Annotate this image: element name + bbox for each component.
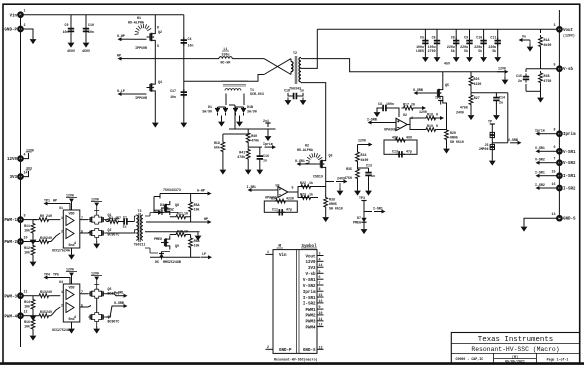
svg-text:PWM2: PWM2	[305, 315, 316, 319]
svg-text:C16: C16	[263, 154, 269, 158]
gate drive transformer T3	[134, 209, 146, 247]
svg-text:450V: 450V	[82, 49, 90, 53]
symbol pin V-sb (5)	[305, 269, 323, 277]
ground (J5)	[489, 158, 496, 166]
svg-text:4220: 4220	[286, 197, 294, 201]
wire T2 aux to aux rail	[301, 59, 504, 72]
connector pin 12V0 (4)	[7, 149, 34, 163]
symbol pin GND-P (2)	[265, 345, 292, 353]
svg-text:R27: R27	[474, 96, 480, 100]
symbol pin Vin (1)	[265, 250, 287, 258]
svg-text:PWM-1: PWM-1	[4, 219, 17, 223]
wire C15/R1B bottom	[526, 90, 541, 92]
wire resonant capacitor leg	[183, 15, 185, 120]
svg-text:H2: H2	[305, 144, 309, 148]
svg-text:V-SR2: V-SR2	[563, 162, 576, 166]
svg-text:2x1: 2x1	[263, 119, 269, 123]
svg-text:Q8: Q8	[175, 203, 179, 207]
svg-text:TP5: TP5	[53, 273, 59, 277]
resistor R26 4220	[469, 72, 481, 93]
transistor pair Q7b BC807	[88, 313, 119, 334]
ground (R1B)	[537, 95, 544, 103]
svg-text:MMBT: MMBT	[154, 209, 162, 213]
connector pin Vout (3)	[554, 23, 575, 38]
svg-text:I-SR2: I-SR2	[563, 188, 576, 192]
svg-text:C0000 - CAP,IC: C0000 - CAP,IC	[456, 357, 484, 361]
wire crossover X to T2 primary	[264, 59, 291, 75]
svg-text:R22: R22	[300, 181, 306, 185]
transistor pair Q1 BC817	[88, 213, 119, 224]
svg-text:C15: C15	[516, 74, 522, 78]
svg-text:C11: C11	[490, 36, 496, 40]
resistor R14 10k	[24, 296, 35, 313]
svg-text:R5A: R5A	[194, 203, 200, 207]
capacitor C10b	[474, 29, 487, 62]
svg-text:Vin: Vin	[9, 13, 17, 18]
svg-text:2n: 2n	[518, 79, 522, 83]
svg-text:I-SRL: I-SRL	[247, 185, 257, 189]
svg-text:Vin: Vin	[279, 253, 287, 258]
svg-text:PWM1: PWM1	[305, 309, 316, 313]
hierarchical symbol M outline	[273, 244, 317, 353]
dual diode D1B	[233, 94, 257, 120]
net arrow 12V0 (U4 VDD)	[66, 268, 77, 285]
svg-text:[M]: [M]	[512, 355, 518, 359]
resistor R5B 10k (LP)	[189, 235, 200, 258]
svg-text:3A/90: 3A/90	[202, 110, 212, 114]
test point TP1 HP	[44, 199, 71, 211]
test point TP4	[44, 273, 71, 285]
left hierarchical pin rail	[20, 15, 22, 347]
ground (C8b)	[374, 110, 381, 118]
op-amp U2	[384, 113, 413, 132]
svg-text:R18: R18	[214, 141, 220, 145]
transistor pair Q6b BC817	[88, 287, 119, 298]
heatsink H1	[128, 16, 151, 35]
transistor Q6 (SR FET)	[313, 154, 332, 179]
svg-text:R5B: R5B	[194, 239, 200, 243]
ground (D7)	[361, 227, 368, 235]
svg-text:I-SR1: I-SR1	[373, 207, 383, 211]
ground (R16)	[30, 333, 37, 341]
svg-text:5k: 5k	[464, 49, 468, 53]
svg-text:1n: 1n	[300, 89, 304, 93]
svg-text:G-SRL: G-SRL	[114, 291, 124, 295]
svg-text:5: 5	[292, 186, 294, 190]
wire sense node	[223, 105, 276, 140]
capacitor C15 2n	[516, 69, 529, 92]
svg-text:12V0: 12V0	[7, 158, 18, 162]
svg-text:GND-S: GND-S	[303, 349, 316, 353]
ground (R20)	[443, 146, 450, 154]
svg-text:56k: 56k	[214, 146, 220, 150]
symbol pin GND-S (13)	[303, 345, 324, 353]
svg-text:U2: U2	[403, 113, 407, 117]
svg-text:GND-P: GND-P	[4, 29, 17, 33]
svg-text:R20: R20	[450, 131, 456, 135]
svg-text:PWM-4: PWM-4	[4, 315, 17, 319]
svg-text:Vo: Vo	[522, 35, 526, 39]
svg-text:I-SR1: I-SR1	[563, 175, 576, 179]
resistor R3 4R7	[105, 216, 121, 223]
svg-text:VDD: VDD	[69, 212, 75, 216]
svg-text:C14: C14	[499, 96, 505, 100]
resistor R5A 10k	[189, 194, 200, 223]
svg-text:4750: 4750	[344, 176, 352, 180]
capacitor C9 450V	[63, 15, 75, 53]
svg-text:D5: D5	[155, 260, 159, 264]
connector pin V-SR1 (6)	[535, 145, 576, 155]
svg-text:4750: 4750	[544, 79, 552, 83]
svg-text:R1B: R1B	[544, 74, 550, 78]
svg-text:SH 0510: SH 0510	[329, 207, 343, 211]
svg-text:5k: 5k	[451, 49, 455, 53]
ground (D1B)	[236, 119, 243, 127]
current transformer T1	[221, 81, 264, 96]
svg-text:Q2: Q2	[158, 30, 162, 34]
capacitor C16 1n	[257, 147, 269, 167]
svg-text:Vout: Vout	[563, 29, 574, 33]
wire T2 bottom to SR leg	[301, 83, 326, 157]
heatsink H2	[297, 144, 322, 164]
test point TP3	[359, 196, 367, 216]
svg-text:10k: 10k	[194, 208, 200, 212]
svg-text:499: 499	[392, 136, 398, 140]
svg-text:11: 11	[319, 317, 323, 321]
svg-text:OPA365: OPA365	[384, 128, 396, 132]
wire Q2 source to switch node	[154, 44, 156, 81]
svg-text:499: 499	[406, 136, 412, 140]
title cell revision	[505, 355, 525, 364]
svg-text:16: 16	[319, 299, 323, 303]
svg-text:1: 1	[267, 250, 269, 254]
net arrow G-SR1 to Q6 gate	[295, 159, 317, 166]
svg-text:8: 8	[554, 128, 556, 132]
svg-text:C13: C13	[392, 150, 398, 154]
net arrow I-SRL to U3 input	[247, 185, 278, 192]
svg-text:U1: U1	[59, 206, 63, 210]
svg-text:1: 1	[61, 216, 63, 220]
svg-text:R11: R11	[24, 224, 30, 228]
capacitor C10 450V	[82, 15, 94, 53]
net arrow V-SRB	[492, 138, 521, 145]
svg-text:3V3: 3V3	[9, 176, 17, 180]
svg-text:V-SRB: V-SRB	[508, 138, 518, 142]
transformer T2	[289, 51, 301, 91]
svg-text:12V0: 12V0	[498, 67, 506, 71]
resistor R35 4750	[344, 167, 359, 188]
svg-text:R34: R34	[271, 197, 277, 201]
svg-text:R19: R19	[427, 124, 433, 128]
svg-text:8: 8	[319, 287, 321, 291]
svg-text:MMSZ5248B: MMSZ5248B	[163, 260, 181, 264]
net arrow 12V0 (R34 top)	[358, 139, 373, 147]
svg-text:Q5: Q5	[445, 83, 449, 87]
capacitor C4	[181, 37, 194, 48]
svg-text:G-SRB: G-SRB	[114, 301, 124, 305]
net arrow G-SRL	[97, 291, 128, 313]
svg-text:12V0: 12V0	[358, 139, 366, 143]
test point 2x1 jumper	[263, 119, 271, 141]
capacitor C18 1n (Y-cap)	[284, 89, 304, 100]
resistor R20 0R05 shunt	[445, 128, 464, 146]
capacitor C17	[170, 89, 187, 99]
resistor R17 20	[402, 102, 419, 110]
capacitor C14 2u	[493, 93, 505, 113]
svg-text:HP: HP	[117, 54, 121, 58]
svg-text:1: 1	[61, 290, 63, 294]
symbol pin Iprim (8)	[303, 287, 324, 295]
svg-text:PMEG: PMEG	[353, 221, 361, 225]
svg-text:10: 10	[319, 311, 323, 315]
svg-text:4: 4	[74, 315, 76, 319]
symbol pin 12V0 (4)	[305, 257, 323, 265]
svg-text:14: 14	[24, 171, 28, 175]
svg-text:HP: HP	[204, 217, 208, 221]
svg-text:10k: 10k	[194, 244, 200, 248]
svg-text:(120V): (120V)	[563, 34, 575, 38]
svg-text:H1: H1	[137, 16, 141, 20]
svg-text:7: 7	[81, 290, 83, 294]
capacitor C9b	[460, 29, 473, 62]
svg-text:PMEG: PMEG	[154, 237, 162, 241]
resistor R15 249	[23, 307, 60, 318]
connector pin 3V3 (14)	[9, 167, 32, 181]
capacitor C1 1u	[121, 216, 134, 229]
net arrow 12V0 (Q1 rail)	[91, 198, 102, 216]
resistor R18b 56k	[214, 140, 225, 167]
net arrow 12V0 aux rail end	[497, 67, 509, 85]
svg-text:20: 20	[411, 102, 415, 106]
transistor Q9 (LP pulldown)	[154, 236, 179, 250]
transistor Q4 (low side)	[135, 80, 162, 100]
zener D5 MMSZ	[145, 248, 181, 264]
diode D7 PMEG	[353, 216, 367, 227]
ground (C18 right)	[300, 98, 307, 106]
svg-text:PWM-3: PWM-3	[4, 295, 17, 299]
svg-text:V-SR1: V-SR1	[563, 151, 576, 155]
ground (C16)	[256, 167, 263, 175]
svg-text:47p: 47p	[406, 150, 412, 154]
svg-text:C18: C18	[284, 89, 290, 93]
ground (D1A)	[218, 119, 225, 127]
svg-text:GND-S: GND-S	[563, 218, 576, 222]
capacitor C6	[416, 29, 429, 62]
ground (U1)	[52, 248, 75, 260]
resistor R12 10k	[24, 242, 35, 260]
symbol pin PWM2 (10)	[305, 311, 323, 319]
svg-text:4k99: 4k99	[544, 43, 552, 47]
svg-text:7: 7	[319, 281, 321, 285]
svg-text:U4: U4	[59, 280, 63, 284]
wire switch node to L1	[155, 58, 219, 60]
svg-text:IPP60R: IPP60R	[135, 96, 147, 100]
svg-text:3: 3	[554, 23, 556, 27]
wire T1 return leg	[184, 80, 221, 82]
wire U1 outputs	[80, 220, 88, 233]
svg-text:R40: R40	[251, 134, 257, 138]
svg-text:T3: T3	[138, 209, 142, 213]
svg-text:V-sb: V-sb	[563, 67, 574, 72]
svg-text:D1: D1	[208, 105, 212, 109]
svg-text:C8: C8	[378, 102, 382, 106]
svg-text:BC807C: BC807C	[108, 320, 120, 324]
svg-text:3A/90: 3A/90	[247, 110, 257, 114]
svg-text:PWM-2: PWM-2	[4, 241, 17, 245]
svg-text:R16: R16	[24, 320, 30, 324]
capacitor C5	[428, 29, 441, 62]
svg-text:10n: 10n	[88, 30, 94, 34]
symbol pin I-SR1 (15)	[303, 293, 324, 301]
svg-text:C10: C10	[88, 23, 94, 27]
svg-text:12V0: 12V0	[91, 198, 99, 202]
net arrow G-HP out	[160, 188, 212, 199]
svg-text:6: 6	[554, 145, 556, 149]
svg-text:TP4: TP4	[44, 273, 50, 277]
svg-text:10k: 10k	[24, 251, 30, 255]
svg-text:I-SR2: I-SR2	[535, 183, 545, 187]
ground (R12)	[30, 259, 37, 267]
wire GND-P to ground	[23, 29, 33, 37]
svg-text:S: S	[157, 44, 159, 48]
svg-text:I-SR1: I-SR1	[303, 297, 316, 301]
svg-text:0R05: 0R05	[450, 136, 458, 140]
svg-text:IPP60R: IPP60R	[135, 46, 147, 50]
svg-text:R38: R38	[329, 198, 335, 202]
svg-text:10: 10	[184, 212, 188, 216]
svg-text:750343373: 750343373	[163, 188, 181, 192]
svg-text:V-SR1: V-SR1	[303, 279, 316, 283]
svg-text:12V0: 12V0	[419, 110, 427, 114]
svg-text:15: 15	[319, 293, 323, 297]
wire T2 tap to output rail	[301, 29, 317, 68]
svg-text:R14: R14	[24, 300, 30, 304]
wire lower Q cell to T3	[88, 232, 134, 234]
svg-text:4750: 4750	[460, 106, 468, 110]
capacitor C8	[447, 29, 460, 62]
ground (C14)	[493, 113, 500, 121]
svg-text:16: 16	[552, 182, 556, 186]
right hierarchical bus	[558, 10, 560, 218]
svg-text:Iprim: Iprim	[303, 290, 316, 295]
svg-text:12V0: 12V0	[305, 261, 316, 265]
svg-text:5: 5	[554, 63, 556, 67]
ground (R27)	[468, 113, 475, 121]
svg-text:2: 2	[61, 303, 63, 307]
net arrow G-SRB out	[105, 301, 127, 317]
svg-text:05/05/2021: 05/05/2021	[505, 359, 525, 363]
connector pin PWM-1 (9)	[4, 214, 25, 224]
svg-text:LP: LP	[202, 252, 206, 256]
ground (R41)	[245, 167, 252, 175]
svg-text:SCR-063: SCR-063	[250, 92, 264, 96]
svg-text:1: 1	[24, 9, 26, 13]
svg-text:GND-P: GND-P	[279, 349, 292, 353]
svg-text:L1: L1	[224, 47, 228, 51]
feedback network box U2 (R 499 / C 47p)	[384, 130, 417, 158]
svg-text:UCC27524A: UCC27524A	[52, 249, 70, 253]
svg-text:NC-HF: NC-HF	[221, 61, 231, 65]
svg-text:14: 14	[319, 263, 323, 267]
test point Vo with ground	[519, 35, 534, 52]
symbol pin PWM3 (11)	[305, 317, 323, 325]
wire T1 to crossover	[248, 75, 264, 82]
svg-text:4220: 4220	[474, 82, 482, 86]
svg-text:R35: R35	[346, 167, 352, 171]
resistor R11 10k	[24, 220, 35, 237]
symbol pin I-SR2 (16)	[303, 299, 324, 307]
svg-text:47p: 47p	[286, 208, 292, 212]
connector pin GND-P (2)	[4, 23, 25, 33]
svg-text:Iprim: Iprim	[263, 142, 273, 146]
resistor R41 470k	[237, 148, 250, 168]
svg-text:C4: C4	[188, 37, 192, 41]
svg-text:15: 15	[552, 170, 556, 174]
connector pin PWM-2 (10)	[4, 236, 27, 246]
svg-text:9: 9	[24, 214, 26, 218]
svg-text:R3: R3	[109, 216, 113, 220]
resistor R16 10k	[24, 316, 35, 333]
transistor Q8 (HP pulldown)	[154, 201, 179, 215]
wire U4 outputs	[80, 294, 91, 307]
svg-text:G-HP: G-HP	[117, 34, 125, 38]
svg-text:3V3: 3V3	[308, 267, 316, 271]
svg-text:9: 9	[319, 305, 321, 309]
wire LP line	[145, 231, 200, 233]
symbol pin V-SR1 (6)	[303, 275, 324, 283]
svg-text:45V: 45V	[444, 62, 450, 66]
svg-text:C10: C10	[476, 36, 482, 40]
resistor R19 0 (U2 fb tap)	[421, 124, 447, 131]
svg-text:5: 5	[319, 269, 321, 273]
symbol subtitle	[274, 357, 318, 361]
net arrow HP at switch node	[117, 54, 155, 61]
svg-text:10n: 10n	[63, 30, 69, 34]
svg-text:4: 4	[74, 241, 76, 245]
svg-text:HP: HP	[53, 199, 57, 203]
connector pin Iprim (8)	[535, 128, 576, 138]
svg-text:G-SRB: G-SRB	[413, 88, 423, 92]
net arrow 24V1 + ground	[326, 177, 348, 196]
svg-text:0R05: 0R05	[329, 202, 337, 206]
HP gate cell: diode D3	[145, 203, 178, 216]
transistor pair Q2b BC807	[88, 228, 119, 249]
wire V-sb node	[526, 68, 557, 70]
svg-text:C9: C9	[65, 23, 69, 27]
net arrow I-SR1 (sense out)	[364, 207, 386, 214]
resistor R21B 10R (LP)	[170, 230, 191, 237]
resistor R1B 4750	[539, 71, 552, 95]
net arrow G-SRB to Q5 gate	[413, 88, 434, 95]
svg-text:C13: C13	[366, 164, 372, 168]
svg-text:10k: 10k	[24, 325, 30, 329]
symbol pin Vout (3)	[305, 252, 323, 260]
ground (GND-P)	[30, 37, 37, 45]
ground (R35)	[354, 188, 361, 196]
net arrow 12V0 (U1 VDD)	[66, 194, 77, 211]
net arrow Iprim (divider tap)	[248, 142, 276, 149]
svg-text:TP: TP	[488, 120, 492, 124]
symbol pin PWM1 (9)	[305, 305, 323, 313]
svg-text:10n: 10n	[170, 95, 176, 99]
svg-text:330u: 330u	[222, 53, 230, 57]
svg-text:C17: C17	[170, 89, 176, 93]
svg-text:R2B: R2B	[177, 230, 183, 234]
svg-text:2700: 2700	[428, 49, 436, 53]
resistor R9 249	[23, 214, 60, 222]
svg-text:G-HP: G-HP	[197, 189, 205, 193]
svg-text:1n: 1n	[263, 159, 267, 163]
